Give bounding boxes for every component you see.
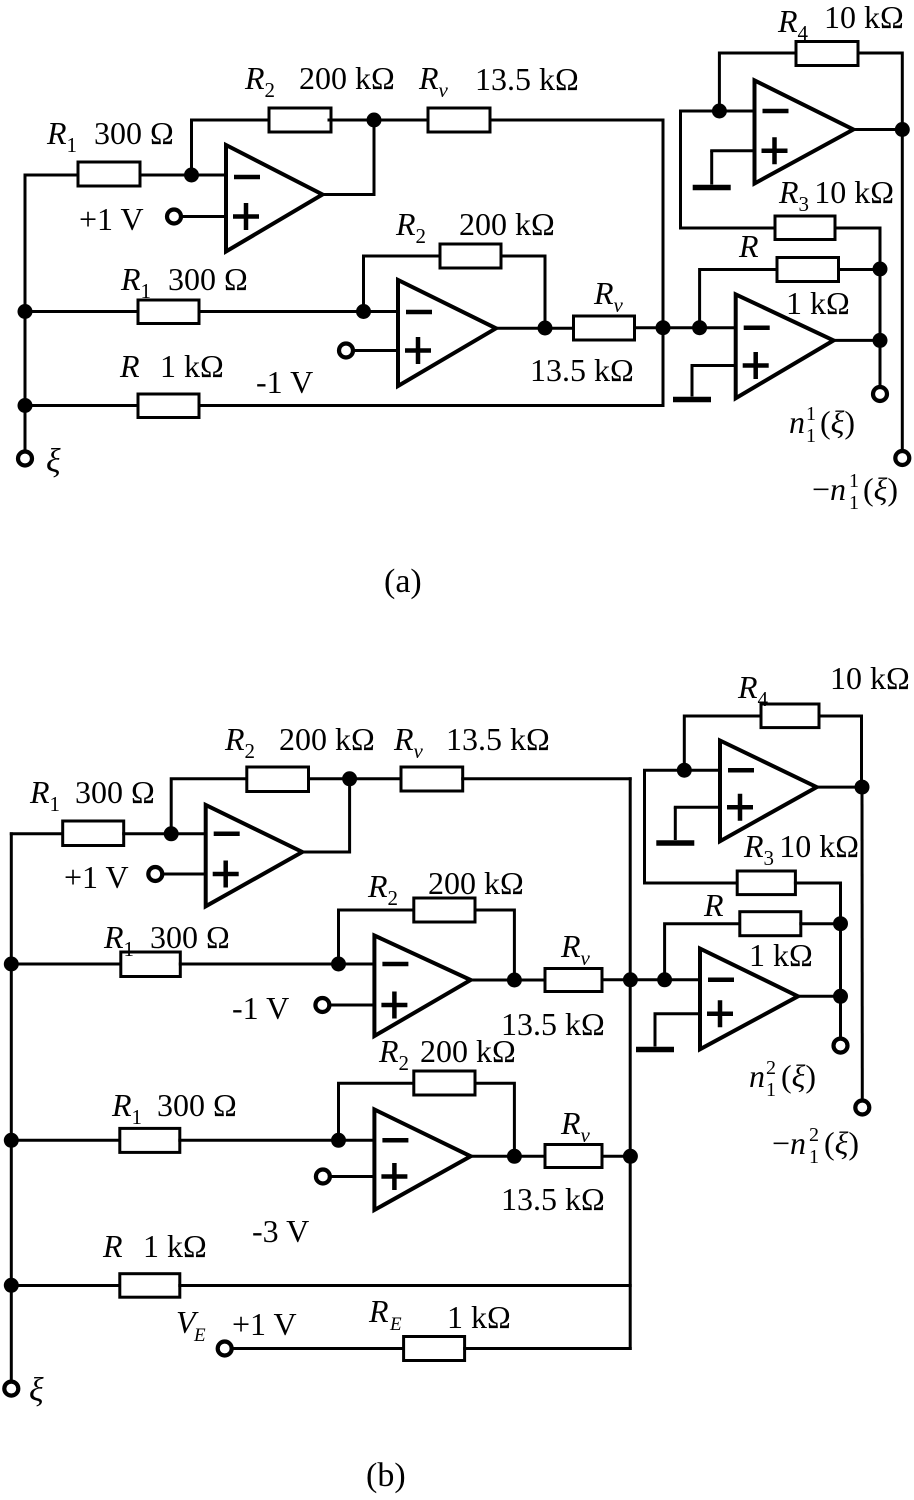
- wire: (b) U5b output down to -n terminal: [861, 787, 864, 1100]
- wire: (a) R feedback to output rail: [839, 268, 881, 271]
- wire: (b) -1V to U2b plus: [329, 1004, 375, 1007]
- svg-text:300 Ω: 300 Ω: [157, 1087, 237, 1123]
- wire: (b) U2b feedback up-left: [339, 910, 414, 964]
- op-amp U5b (b): [720, 741, 817, 842]
- wire: (a) U3 output: [853, 128, 902, 131]
- terminal +1V (b): [148, 867, 162, 881]
- wire: (b) ground stub to U4b plus: [655, 1012, 700, 1015]
- node: (b) rail junction row3: [4, 1133, 19, 1148]
- wire: (b) row3 rail to R1: [11, 1139, 120, 1142]
- svg-text:1: 1: [849, 492, 859, 514]
- wire: (a) R feedback left leg: [700, 270, 777, 328]
- svg-text:200 kΩ: 200 kΩ: [279, 721, 375, 757]
- wire: (a) U4 output: [834, 339, 880, 342]
- node A: (a) U1 output/feedback junction: [367, 113, 382, 128]
- resistor R4 (a) 10k: [796, 42, 858, 66]
- op-amp U4b (b): [700, 949, 798, 1050]
- resistor R4 (b) 10k: [761, 704, 819, 728]
- wire: (b) row1 R1 to U1b minus: [124, 832, 206, 835]
- terminal xi (b): [4, 1382, 18, 1396]
- resistor R (b) U4b feedback 1k: [740, 912, 801, 936]
- wire: (b) R4 right leg: [819, 716, 862, 787]
- svg-text:13.5 kΩ: 13.5 kΩ: [530, 352, 634, 388]
- wire: (b) R junction down to output: [839, 924, 842, 997]
- wire: (a) Rv2 to U4 minus: [635, 326, 736, 329]
- terminal n12(xi) (b): [834, 1039, 848, 1053]
- wire: (b) R2 U1b to node: [309, 777, 350, 780]
- resistor R2 (b) U2b feedback 200k: [414, 898, 475, 922]
- resistor R3 (a) 10k: [775, 216, 835, 240]
- svg-text:(ξ): (ξ): [824, 1125, 859, 1161]
- svg-text:E: E: [193, 1325, 206, 1346]
- wire: (b) Rv2b to U4b minus: [602, 978, 700, 981]
- svg-text:(ξ): (ξ): [863, 471, 898, 507]
- label -n12(xi) output (b): [772, 1124, 859, 1168]
- wire: (b) U3b feedback up-left: [339, 1083, 414, 1140]
- op-amp U4 (a): [736, 294, 834, 398]
- svg-text:1: 1: [766, 1079, 776, 1101]
- svg-text:1: 1: [809, 1146, 819, 1168]
- wire: (b) node to Rv1b: [350, 777, 401, 780]
- wire: (b) VE to RE: [231, 1347, 403, 1350]
- resistor R (a) row3 1k: [138, 394, 199, 418]
- svg-text:-1 V: -1 V: [232, 990, 289, 1026]
- svg-text:−n: −n: [772, 1125, 806, 1161]
- wire: (a) R4 right leg: [858, 53, 902, 130]
- wire: (b) row4 rail to R: [11, 1284, 120, 1287]
- node: (a) U1 inverting input junction: [184, 168, 199, 183]
- wire: (a) row3 R to summing rail: [199, 404, 663, 407]
- svg-text:(ξ): (ξ): [820, 404, 855, 440]
- svg-text:10 kΩ: 10 kΩ: [830, 660, 910, 696]
- svg-text:200 kΩ: 200 kΩ: [459, 206, 555, 242]
- op-amp U3 (a): [755, 80, 854, 183]
- wire: (b) Rv3b to main rail: [602, 1155, 630, 1158]
- svg-text:n: n: [749, 1058, 765, 1094]
- wire: (a) U2 feedback up-left: [364, 256, 441, 312]
- wire: (a) ground stub to U4 plus: [692, 364, 736, 367]
- wire: (b) row4 R to main rail: [180, 1284, 630, 1287]
- svg-text:+1 V: +1 V: [64, 859, 129, 895]
- node: (b) U2b output junction: [507, 973, 522, 988]
- wire: (b) row2 R1 to U2b minus: [180, 963, 374, 966]
- wire: (b) left input rail vertical: [10, 834, 13, 1382]
- svg-text:(a): (a): [384, 563, 422, 600]
- wire: (a) row3 rail to R: [25, 404, 138, 407]
- svg-text:(b): (b): [366, 1457, 406, 1494]
- svg-text:1: 1: [806, 403, 816, 425]
- svg-text:200 kΩ: 200 kΩ: [420, 1033, 516, 1069]
- wire: (a) row2 rail to R1: [25, 310, 138, 313]
- node: (b) U1b output/feedback junction: [342, 771, 357, 786]
- wire: (a) R2 U2 to output: [501, 256, 545, 328]
- wire: (b) +1V to U1b plus: [162, 873, 206, 876]
- label n11(xi) output (a): [789, 403, 855, 447]
- resistor R2 (b) U1b feedback 200k: [247, 767, 309, 792]
- svg-text:ξ: ξ: [29, 1372, 44, 1409]
- wire: (a) U3 output down to -n terminal: [901, 130, 904, 452]
- svg-text:2: 2: [766, 1057, 776, 1079]
- svg-text:200 kΩ: 200 kΩ: [428, 865, 524, 901]
- ground U3 (a): [693, 151, 731, 188]
- terminal +1V (a): [167, 210, 181, 224]
- terminal -n12(xi) (b): [855, 1101, 869, 1115]
- wire: (b) R3 left leg: [645, 882, 738, 885]
- wire: (a) -1V to U2 plus: [353, 349, 399, 352]
- resistor Rv (b) U2b 13.5k: [545, 969, 602, 992]
- resistor R1 (b) row2 300ohm: [121, 952, 181, 977]
- wire: (a) row2 R1 to U2 minus: [199, 310, 398, 313]
- svg-text:+1 V: +1 V: [79, 201, 144, 237]
- svg-text:300 Ω: 300 Ω: [75, 774, 155, 810]
- wire: (b) ground stub to U5b plus: [675, 806, 720, 809]
- wire: (a) R3 right to rail: [835, 228, 880, 340]
- resistor R1 (a) row1 300ohm: [78, 162, 140, 186]
- node: (b) U1b inverting input junction: [164, 826, 179, 841]
- wire: (a) ground stub to U3 plus: [712, 149, 755, 152]
- wire: (b) -3V to U3b plus: [329, 1175, 374, 1178]
- svg-text:ξ: ξ: [46, 443, 61, 480]
- svg-text:1 kΩ: 1 kΩ: [143, 1228, 207, 1264]
- resistor R1 (b) row1 300ohm: [63, 821, 124, 846]
- svg-text:1 kΩ: 1 kΩ: [160, 348, 224, 384]
- resistor R (a) U4 feedback 1k: [777, 258, 839, 282]
- svg-text:1: 1: [849, 470, 859, 492]
- terminal xi (a): [18, 452, 32, 466]
- wire: (b) RE to main rail: [465, 1347, 631, 1350]
- terminal n11(xi) (a): [873, 387, 887, 401]
- label n12(xi) output (b): [749, 1057, 816, 1101]
- node: (a) U4 inverting input junction: [692, 320, 707, 335]
- wire: (b) U1b output up to node: [302, 779, 349, 852]
- op-amp U1b (b): [206, 805, 303, 906]
- node: (a) summing junction: [656, 320, 671, 335]
- node: (a) R3/R junction: [873, 262, 888, 277]
- terminal -n11(xi) (a): [895, 451, 909, 465]
- node: (a) rail junction row3: [18, 398, 33, 413]
- wire: (b) U5b minus input: [645, 770, 721, 883]
- wire: (a) row1 R1 to op-amp U1 minus: [140, 174, 226, 177]
- wire: (b) U5b output: [817, 786, 862, 789]
- node: (b) U3b output junction: [507, 1149, 522, 1164]
- resistor R2 (b) U3b feedback 200k: [414, 1071, 475, 1095]
- svg-text:(ξ): (ξ): [781, 1058, 816, 1094]
- node: (b) rail junction row2: [4, 957, 19, 972]
- resistor R3 (b) 10k: [737, 871, 795, 895]
- svg-text:13.5 kΩ: 13.5 kΩ: [501, 1006, 605, 1042]
- svg-text:R: R: [368, 1293, 389, 1329]
- node: (b) U4b inverting input junction: [657, 972, 672, 987]
- wire: (a) U3 minus input: [681, 111, 755, 228]
- resistor Rv (a) U1 13.5k: [428, 108, 490, 132]
- terminal -1V (a): [339, 344, 353, 358]
- wire: (b) row1 rail to R1: [11, 832, 62, 835]
- terminal -1V (b): [315, 998, 329, 1012]
- svg-text:1: 1: [806, 425, 816, 447]
- node: (b) U2b inverting input junction: [331, 957, 346, 972]
- op-amp U3b (b): [374, 1110, 470, 1211]
- svg-text:1 kΩ: 1 kΩ: [447, 1299, 511, 1335]
- svg-text:R: R: [703, 887, 724, 923]
- wire: (a) summing rail vertical: [662, 120, 665, 406]
- svg-text:R: R: [102, 1228, 123, 1264]
- node: (b) R3/R junction: [833, 916, 848, 931]
- wire: (b) summing rail vertical: [629, 779, 632, 1349]
- wire: (a) output to n terminal: [879, 340, 882, 387]
- op-amp U1 (a): [226, 145, 323, 252]
- svg-text:2: 2: [809, 1124, 819, 1146]
- svg-text:E: E: [389, 1314, 402, 1335]
- wire: (b) U3b output to Rv3b: [471, 1155, 545, 1158]
- svg-text:R3 10 kΩ: R3 10 kΩ: [778, 174, 894, 216]
- wire: (a) U1 feedback up-left: [192, 120, 270, 175]
- wire: (b) output to n terminal: [839, 996, 842, 1038]
- node: (b) U5b output junction: [855, 780, 870, 795]
- svg-text:n: n: [789, 404, 805, 440]
- wire: (a) node A to Rv1: [374, 119, 428, 122]
- svg-text:13.5 kΩ: 13.5 kΩ: [475, 61, 579, 97]
- wire: (b) row3 R1 to U3b minus: [180, 1139, 375, 1142]
- svg-text:10 kΩ: 10 kΩ: [824, 0, 904, 35]
- node: (b) summing junction row2: [623, 972, 638, 987]
- resistor R2 (a) U1 feedback 200k: [269, 108, 331, 132]
- wire: (a) left input rail vertical: [24, 175, 27, 451]
- ground U5b (b): [656, 807, 694, 843]
- wire: (b) R2 U3b to output: [475, 1083, 514, 1156]
- svg-text:R: R: [738, 228, 759, 264]
- node: (b) U5b inverting input junction: [677, 763, 692, 778]
- wire: (b) R2 U2b to output: [475, 910, 514, 980]
- svg-text:+1 V: +1 V: [232, 1306, 297, 1342]
- wire: (b) R3 right to R junction: [795, 883, 840, 924]
- wire: (a) U2 output to Rv2: [496, 327, 574, 330]
- resistor R2 (a) U2 feedback 200k: [440, 244, 501, 268]
- svg-text:R3 10 kΩ: R3 10 kΩ: [743, 828, 859, 870]
- node: (a) U4 output junction: [873, 333, 888, 348]
- node: (a) rail junction row2: [18, 304, 33, 319]
- resistor Rv (a) U2 13.5k: [574, 316, 635, 340]
- resistor Rv (b) U3b 13.5k: [545, 1145, 602, 1168]
- wire: (b) R feedback left leg: [665, 924, 740, 980]
- terminal VE +1V (b): [218, 1342, 232, 1356]
- wire: (a) +1V to U1 plus: [181, 215, 227, 218]
- node: (a) U2 inverting input junction: [356, 304, 371, 319]
- wire: (a) row1 rail to R1: [25, 174, 78, 177]
- svg-text:300 Ω: 300 Ω: [168, 261, 248, 297]
- op-amp U2b (b): [374, 936, 470, 1037]
- wire: (b) Rv1b to main rail: [463, 777, 631, 780]
- wire: (b) U2b output to Rv2b: [471, 979, 545, 982]
- resistor R1 (a) row2 300ohm: [138, 300, 199, 324]
- node: (a) U3 output junction: [895, 122, 910, 137]
- resistor R1 (b) row3 300ohm: [120, 1128, 180, 1152]
- node: (a) U2 output junction: [538, 321, 553, 336]
- wire: (a) R2 to node A: [329, 119, 374, 122]
- label RE (b): [368, 1293, 402, 1335]
- svg-text:300 Ω: 300 Ω: [150, 919, 230, 955]
- label VE (b): [176, 1304, 206, 1346]
- op-amp U2 (a): [398, 280, 496, 386]
- wire: (b) R4 left leg: [684, 716, 761, 770]
- node: (b) rail junction row4: [4, 1278, 19, 1293]
- wire: (b) U4b output: [798, 995, 841, 998]
- svg-text:300 Ω: 300 Ω: [94, 115, 174, 151]
- node: (b) U3b inverting input junction: [331, 1133, 346, 1148]
- node: (b) summing junction row3: [623, 1149, 638, 1164]
- wire: (b) R feedback to output rail: [801, 922, 841, 925]
- svg-text:-3 V: -3 V: [252, 1213, 309, 1249]
- ground U4b (b): [636, 1014, 674, 1050]
- svg-text:200 kΩ: 200 kΩ: [299, 60, 395, 96]
- svg-text:1 kΩ: 1 kΩ: [749, 937, 813, 973]
- svg-text:1 kΩ: 1 kΩ: [786, 285, 850, 321]
- svg-text:−n: −n: [812, 471, 846, 507]
- node: (b) U4b output junction: [833, 989, 848, 1004]
- svg-text:13.5 kΩ: 13.5 kΩ: [501, 1181, 605, 1217]
- svg-text:-1 V: -1 V: [256, 364, 313, 400]
- svg-text:R: R: [119, 348, 140, 384]
- wire: (a) R3 left leg up to U3 minus: [681, 227, 776, 230]
- resistor R (b) row4 1k: [120, 1274, 180, 1298]
- terminal -3V (b): [316, 1170, 330, 1184]
- ground U4 (a): [673, 366, 711, 400]
- node: (a) U3 inverting input junction: [712, 104, 727, 119]
- svg-text:13.5 kΩ: 13.5 kΩ: [446, 721, 550, 757]
- wire: (a) R4 left leg: [719, 53, 796, 111]
- wire: (a) U1 output up to node A: [323, 120, 375, 195]
- label -n11(xi) output (a): [812, 470, 898, 514]
- resistor RE (b) 1k: [404, 1337, 465, 1361]
- wire: (a) Rv1 to summing rail: [490, 119, 663, 122]
- wire: (b) row2 rail to R1: [11, 963, 121, 966]
- resistor Rv (b) U1b 13.5k: [401, 767, 463, 791]
- wire: (b) U1b feedback up-left: [171, 779, 247, 834]
